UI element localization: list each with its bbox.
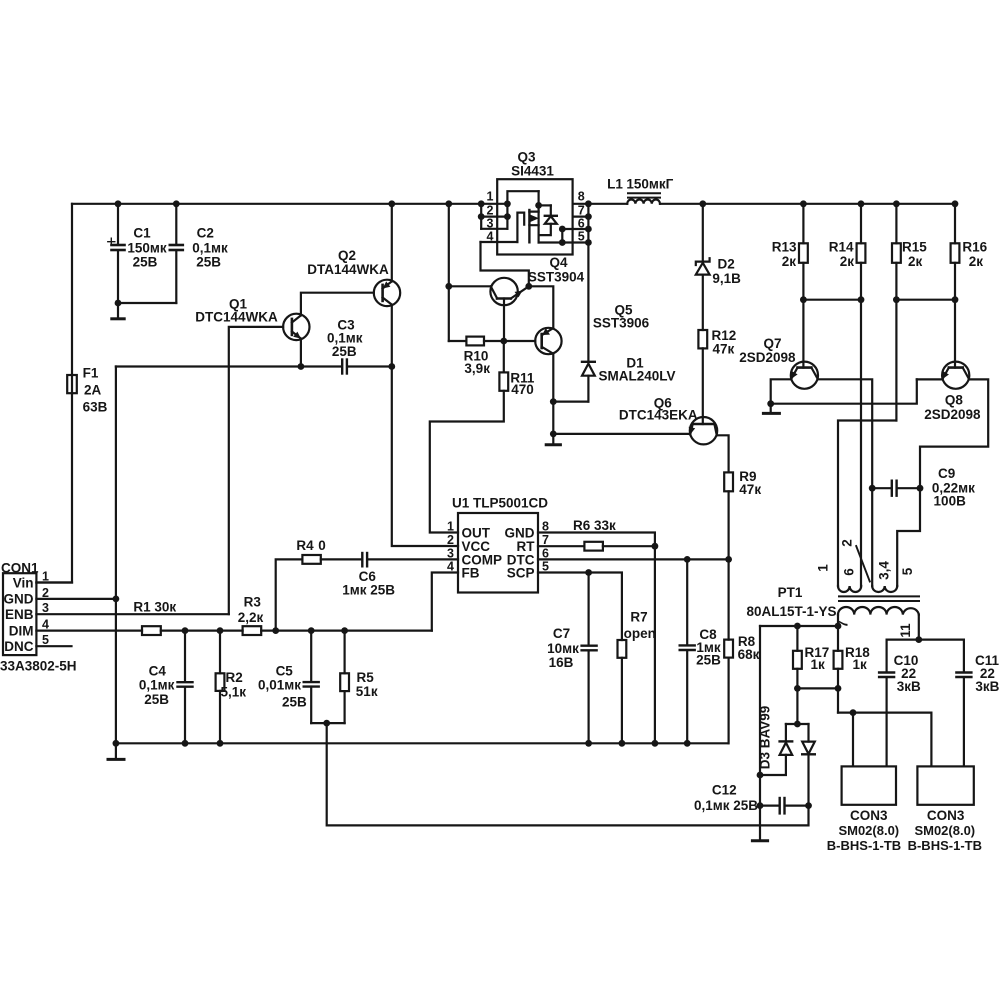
- wire: node7 output line to CON3: [838, 713, 931, 767]
- svg-text:ENB: ENB: [5, 607, 34, 622]
- svg-text:1к: 1к: [811, 657, 826, 672]
- junction dot C1-C2: [115, 300, 122, 307]
- resistor R7: [618, 640, 627, 658]
- wire: secondary pin7 lead: [837, 615, 839, 626]
- wire: Q5 node down to Q6 base: [552, 402, 554, 434]
- svg-text:C2: C2: [197, 226, 214, 241]
- wire: R17-R18 bottom rung: [797, 687, 838, 689]
- svg-text:B-BHS-1-TB: B-BHS-1-TB: [908, 838, 982, 853]
- capacitor C4: [184, 631, 186, 682]
- resistor R12: [698, 330, 707, 348]
- svg-text:U1 TLP5001CD: U1 TLP5001CD: [452, 496, 548, 511]
- transformer PT1 secondary winding: [838, 607, 919, 615]
- svg-text:80AL15T-1-YS: 80AL15T-1-YS: [746, 604, 836, 619]
- svg-text:FB: FB: [462, 565, 480, 580]
- svg-text:1мк 25В: 1мк 25В: [342, 583, 395, 598]
- svg-text:51к: 51к: [356, 684, 378, 699]
- svg-text:25В: 25В: [696, 653, 721, 668]
- MOSFET Q3 package outline: [497, 179, 572, 254]
- wire: node7 horizontal: [760, 625, 838, 627]
- svg-text:open: open: [624, 626, 656, 641]
- resistor R3: [243, 626, 262, 635]
- wire: transformer pin2 tap slash: [856, 546, 870, 582]
- svg-text:R5: R5: [357, 670, 375, 685]
- svg-text:C7: C7: [553, 626, 570, 641]
- wire: CON1 pin3 ENB stub: [36, 613, 228, 615]
- svg-text:2к: 2к: [969, 254, 984, 269]
- wire: Q3 pin2 stub: [481, 216, 507, 218]
- svg-text:3кВ: 3кВ: [975, 679, 999, 694]
- wire: fuse to CON1 Vin: [36, 393, 72, 582]
- svg-text:5,1к: 5,1к: [221, 685, 247, 700]
- svg-text:25В: 25В: [133, 255, 158, 270]
- svg-text:SM02(8.0): SM02(8.0): [914, 823, 975, 838]
- wire: Vin left rail to fuse: [71, 204, 73, 375]
- wire: top bus drop to R10/Q4 base: [448, 204, 450, 341]
- svg-text:3,4: 3,4: [877, 561, 892, 580]
- svg-text:PT1: PT1: [778, 585, 803, 600]
- svg-text:DTA144WKA: DTA144WKA: [307, 262, 389, 277]
- svg-text:R1 30к: R1 30к: [133, 600, 176, 615]
- ground below cold rail: [752, 839, 767, 842]
- svg-text:8: 8: [578, 190, 585, 204]
- svg-text:2SD2098: 2SD2098: [739, 350, 796, 365]
- svg-text:3: 3: [487, 217, 494, 231]
- svg-text:150мкГ: 150мкГ: [626, 177, 673, 192]
- wire: Q6 emitter to R9: [717, 435, 729, 472]
- wire: Q1 base from ENB: [229, 327, 283, 614]
- svg-text:1: 1: [487, 190, 494, 204]
- wire: switch-node bus right section: [703, 203, 955, 205]
- capacitor C12: [760, 804, 779, 806]
- svg-text:5: 5: [42, 633, 49, 647]
- fuse F1: [67, 375, 77, 393]
- svg-text:CON3: CON3: [850, 808, 888, 823]
- svg-text:2A: 2A: [84, 383, 102, 398]
- wire: Q1 emitter down: [300, 339, 302, 367]
- ground below bottom bus: [115, 743, 117, 758]
- junction dots Q4/Q5: [445, 283, 452, 290]
- svg-text:100В: 100В: [934, 494, 967, 509]
- svg-text:R3: R3: [244, 595, 262, 610]
- svg-text:2: 2: [840, 539, 855, 547]
- svg-text:68к: 68к: [738, 647, 760, 662]
- capacitor C3: [341, 360, 343, 374]
- svg-text:4: 4: [487, 230, 494, 244]
- capacitor C5: [310, 631, 312, 682]
- svg-text:DTC143EKA: DTC143EKA: [619, 408, 698, 423]
- svg-text:33A3802-5H: 33A3802-5H: [0, 659, 77, 674]
- wire: C5R5 node to C12 link: [327, 723, 809, 825]
- capacitor C8: [686, 559, 688, 645]
- wire: Q4 base: [449, 285, 491, 287]
- wire: GND rail down from C3 node: [115, 367, 117, 744]
- svg-text:11: 11: [898, 623, 913, 638]
- junction dots bottom bus: [113, 740, 120, 747]
- resistor R17: [796, 626, 798, 651]
- junction dots C3 node: [298, 363, 305, 370]
- svg-text:5: 5: [578, 230, 585, 244]
- wire: Q3 pin4 to Q4 collector: [481, 242, 529, 286]
- svg-text:SMAL240LV: SMAL240LV: [598, 369, 675, 384]
- junction dots C9: [869, 485, 876, 492]
- junction dots U1 right: [652, 543, 659, 550]
- svg-text:R7: R7: [630, 610, 647, 625]
- svg-text:Q7: Q7: [763, 336, 781, 351]
- svg-text:SI4431: SI4431: [511, 164, 554, 179]
- wire: Q5 emitter down to D1 node: [552, 354, 554, 402]
- svg-text:8: 8: [542, 520, 549, 534]
- wire: FB riser to U1 pin4: [432, 573, 458, 631]
- wire: CON1 pin1 Vin stub: [36, 581, 72, 583]
- wire: Q3 drain to pins 5,6: [539, 241, 563, 243]
- svg-text:Q4: Q4: [549, 255, 568, 270]
- svg-text:25В: 25В: [144, 692, 169, 707]
- ground below Q7: [770, 404, 772, 413]
- wire: Q3 pins 5-6-7-8 tie bar: [587, 204, 589, 243]
- wire: Q7 collector to transformer pin3,4: [818, 379, 872, 586]
- transistor Q7: [791, 362, 818, 389]
- svg-text:Q8: Q8: [945, 393, 964, 408]
- wire: U1 pin8 GND to bottom bus: [538, 533, 655, 744]
- svg-text:3,9к: 3,9к: [464, 361, 490, 376]
- resistor R10: [449, 340, 467, 342]
- svg-text:R6 33к: R6 33к: [573, 518, 616, 533]
- svg-text:R14: R14: [829, 240, 854, 255]
- svg-text:3кВ: 3кВ: [897, 679, 921, 694]
- wire: Q4 collector to Q5 top: [529, 286, 554, 328]
- svg-text:D2: D2: [718, 257, 735, 272]
- svg-text:7: 7: [836, 620, 851, 628]
- resistor R6: [584, 542, 603, 551]
- svg-text:25В: 25В: [196, 255, 221, 270]
- resistor R14: [860, 204, 862, 244]
- svg-text:DNC: DNC: [4, 639, 33, 654]
- svg-text:SST3906: SST3906: [593, 316, 650, 331]
- svg-text:16В: 16В: [549, 655, 574, 670]
- svg-text:4: 4: [42, 618, 49, 632]
- svg-text:0,1мк 25В: 0,1мк 25В: [694, 798, 758, 813]
- wire: Q1 collector to Q2 base: [301, 293, 374, 316]
- svg-text:C1: C1: [133, 226, 151, 241]
- svg-text:CON3: CON3: [927, 808, 965, 823]
- resistor R1: [142, 626, 161, 635]
- transistor Q6: [690, 417, 717, 444]
- svg-text:R15: R15: [902, 240, 927, 255]
- wire: Vin top bus (left section): [72, 203, 507, 205]
- wire: Q2 emitter down to C3 node: [391, 305, 393, 367]
- zener diode D2: [702, 204, 704, 262]
- svg-text:0,1мк: 0,1мк: [192, 241, 228, 256]
- wire: Q7 emitter to ground: [771, 379, 791, 403]
- wire: bottom ground bus: [116, 742, 729, 744]
- svg-text:25В: 25В: [332, 344, 357, 359]
- wire: R13-R14 junction rung: [803, 299, 861, 301]
- resistor R5: [344, 631, 346, 674]
- diode D3a: [785, 724, 787, 741]
- transistor Q4: [490, 278, 517, 305]
- svg-text:2,2к: 2,2к: [238, 610, 264, 625]
- capacitor C6: [361, 553, 363, 566]
- wire: CON1 pin5 DNC stub: [36, 645, 71, 647]
- svg-text:150мк: 150мк: [127, 241, 167, 256]
- resistor R8: [727, 559, 729, 639]
- junction dots DIM line: [113, 596, 120, 603]
- diode D1: [587, 376, 589, 402]
- transistor Q2: [374, 280, 400, 306]
- wire: D3 top link: [786, 723, 809, 725]
- capacitor C7: [587, 573, 589, 646]
- svg-text:0,1мк: 0,1мк: [139, 678, 175, 693]
- transformer PT1 core: [839, 596, 919, 601]
- svg-text:2к: 2к: [782, 254, 797, 269]
- resistor R15: [895, 204, 897, 244]
- svg-text:6: 6: [842, 568, 857, 576]
- wire: Q7/Q8 emitter ground link: [771, 379, 917, 403]
- wire: R15 to transformer pin1: [838, 421, 896, 587]
- capacitor C9: [872, 487, 891, 489]
- capacitor C2: [175, 204, 177, 245]
- wire: secondary pin11 lead: [918, 615, 920, 640]
- svg-text:R4: R4: [296, 538, 314, 553]
- resistor R16: [954, 204, 956, 244]
- svg-text:D3 BAV99: D3 BAV99: [758, 706, 773, 770]
- svg-text:L1: L1: [607, 177, 623, 192]
- svg-text:1: 1: [816, 564, 831, 572]
- svg-text:9,1В: 9,1В: [712, 271, 741, 286]
- junction dot Q7 ground: [767, 400, 774, 407]
- capacitor C10: [885, 640, 887, 673]
- connector CON3 (left): [842, 766, 896, 804]
- junction dots Q3 pin ladders: [478, 213, 485, 220]
- capacitor C1: [117, 204, 119, 245]
- wire: Q3 pin3 stub: [481, 228, 507, 230]
- svg-text:2: 2: [447, 533, 454, 547]
- resistor R11: [503, 341, 505, 372]
- resistor R2: [219, 631, 221, 674]
- svg-text:0: 0: [318, 538, 326, 553]
- svg-text:47к: 47к: [713, 342, 735, 357]
- connector CON3 (right): [917, 766, 973, 804]
- wire: C5-R5 bottom join: [311, 722, 344, 724]
- svg-text:CON1: CON1: [1, 560, 39, 575]
- svg-text:C5: C5: [276, 664, 294, 679]
- svg-text:10мк: 10мк: [547, 641, 579, 656]
- transformer PT1 primary winding B: [872, 586, 897, 592]
- svg-text:2к: 2к: [840, 254, 855, 269]
- svg-text:5: 5: [900, 567, 915, 575]
- transformer PT1 primary winding A: [838, 586, 861, 592]
- ground below Q5/Q6 node: [552, 434, 554, 444]
- svg-text:0,01мк: 0,01мк: [258, 678, 301, 693]
- resistor R4: [302, 555, 320, 564]
- wire: cold rail from node7 down: [759, 626, 761, 841]
- svg-text:2к: 2к: [908, 254, 923, 269]
- resistor R9: [724, 472, 733, 491]
- ground below C1: [117, 303, 119, 318]
- svg-text:6: 6: [542, 547, 549, 561]
- svg-text:R2: R2: [226, 670, 243, 685]
- wire: Q3 pin7 stub: [573, 216, 589, 218]
- svg-text:2: 2: [487, 204, 494, 218]
- svg-text:3: 3: [42, 601, 49, 615]
- resistor R18: [837, 626, 839, 651]
- svg-text:470: 470: [511, 382, 534, 397]
- diode D3b: [807, 724, 809, 742]
- svg-text:C9: C9: [938, 466, 955, 481]
- svg-text:6: 6: [578, 217, 585, 231]
- optocoupler U1 TLP5001CD: [458, 513, 538, 593]
- svg-text:3: 3: [447, 547, 454, 561]
- wire: U1 pin6 DTC node: [538, 558, 729, 560]
- resistor R13: [802, 204, 804, 244]
- svg-text:SST3904: SST3904: [528, 270, 585, 285]
- wire: Q2 collector to top bus: [391, 204, 393, 282]
- svg-text:Q3: Q3: [517, 150, 536, 165]
- svg-text:47к: 47к: [739, 482, 761, 497]
- wire: Q8 emitter to ground link: [917, 378, 943, 380]
- connector CON1: [3, 573, 36, 655]
- wire: pin11 node horizontal: [887, 638, 964, 640]
- wire: VCC feed from C3 node to U1 pin2: [392, 367, 458, 547]
- svg-text:R16: R16: [962, 240, 987, 255]
- transistor Q8: [942, 362, 969, 389]
- wire: D1 node horizontal: [553, 401, 588, 403]
- wire: COMP branch riser: [276, 559, 303, 630]
- svg-text:SM02(8.0): SM02(8.0): [838, 823, 899, 838]
- wire: Q8 collector to transformer pin5: [897, 379, 988, 586]
- wire: U1 pin5 SCP to R7: [538, 573, 622, 641]
- svg-text:5: 5: [542, 560, 549, 574]
- svg-text:7: 7: [542, 533, 549, 547]
- svg-text:R13: R13: [772, 240, 797, 255]
- wire: C1-C2 bottom join: [118, 302, 176, 304]
- inductor L1: [573, 203, 628, 205]
- transistor Q5: [535, 328, 561, 354]
- svg-text:B-BHS-1-TB: B-BHS-1-TB: [827, 838, 901, 853]
- svg-text:C12: C12: [712, 783, 737, 798]
- svg-text:DIM: DIM: [9, 623, 34, 638]
- junction dots top bus: [115, 200, 122, 207]
- wire: Q3 pins 1-2-3 tie bar: [480, 204, 482, 229]
- wire: CON1 pin2 GND stub: [36, 598, 116, 600]
- MOSFET Q3 internal symbol: [481, 241, 518, 243]
- wire: Q3 internal source rail: [507, 191, 538, 229]
- wire: R15-R16 junction rung: [896, 299, 955, 301]
- junction dots R13-R16: [800, 296, 807, 303]
- wire: C3 line (Q1 emitter node): [116, 365, 341, 367]
- svg-text:F1: F1: [83, 366, 99, 381]
- svg-text:Vin: Vin: [13, 575, 34, 590]
- svg-text:1: 1: [42, 570, 49, 584]
- svg-text:63В: 63В: [83, 400, 108, 415]
- diode: Q3 body diode: [539, 204, 551, 206]
- svg-text:2: 2: [42, 586, 49, 600]
- svg-text:25В: 25В: [282, 695, 307, 710]
- svg-text:2SD2098: 2SD2098: [924, 407, 981, 422]
- wire: CON1 pin4 DIM line: [36, 629, 142, 631]
- wire: CON3-1 left pin: [852, 713, 854, 767]
- svg-text:Q2: Q2: [338, 248, 356, 263]
- svg-text:4: 4: [447, 560, 454, 574]
- transistor Q1: [283, 314, 309, 340]
- svg-text:1к: 1к: [853, 657, 868, 672]
- svg-text:SCP: SCP: [507, 565, 535, 580]
- junction dot C5R5 bottom: [323, 720, 330, 727]
- junction dots output section: [835, 623, 842, 630]
- capacitor C11: [963, 640, 965, 673]
- svg-text:1: 1: [447, 520, 454, 534]
- svg-text:7: 7: [578, 204, 585, 218]
- svg-text:DTC144WKA: DTC144WKA: [195, 310, 278, 325]
- svg-text:GND: GND: [4, 592, 34, 607]
- svg-text:C4: C4: [149, 664, 167, 679]
- wire: U1 pin7 RT: [538, 545, 584, 547]
